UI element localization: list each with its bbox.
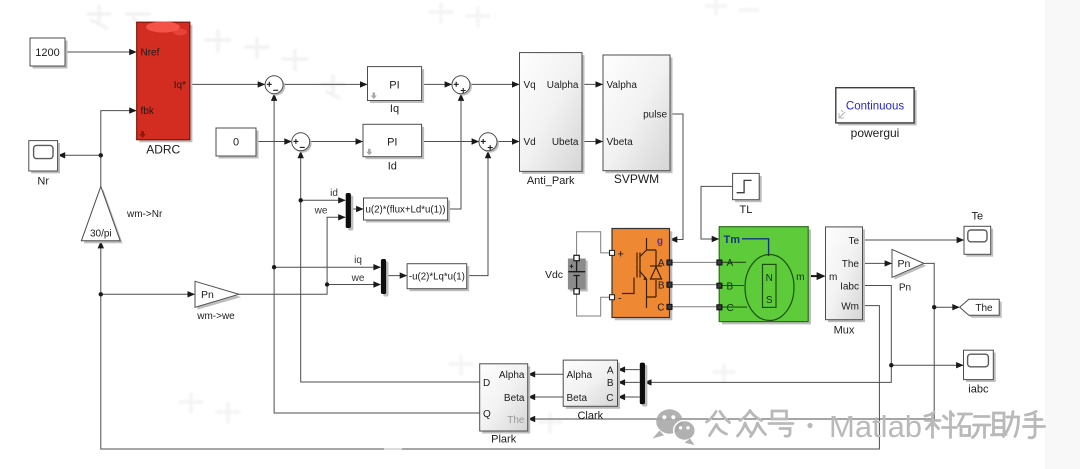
wire PI Id to sum4 (422, 138, 480, 144)
wire const0 to sum2 (256, 138, 292, 144)
svg-text:id: id (330, 188, 338, 199)
wire sum3 to Anti_Park Vq (470, 81, 520, 87)
subsystem Clark (563, 360, 620, 422)
wire gain Pn to The tag and Plark The (528, 263, 960, 422)
wire SVPWM pulse to inverter g (670, 114, 683, 243)
label iq (354, 255, 362, 266)
svg-text:Anti_Park: Anti_Park (527, 175, 575, 187)
svg-text:Id: Id (388, 161, 397, 173)
step TL (733, 173, 762, 216)
page edge band right (1045, 0, 1080, 469)
wire gain 30/pi to scope Nr and ADRC fbk (58, 107, 137, 186)
svg-text:Q: Q (483, 409, 491, 420)
svg-text:Pn: Pn (899, 283, 911, 294)
subsystem Plark (480, 364, 531, 446)
svg-text:B: B (727, 281, 734, 292)
svg-text:1200: 1200 (35, 47, 59, 59)
wire Anti_Park Ubeta to SVPWM Vbeta (582, 138, 603, 144)
wire sum1 to PI Iq (283, 81, 367, 87)
fcn2 Lq feedforward (407, 264, 469, 292)
svg-text:N: N (766, 273, 773, 284)
faint diagonal watermark top-left (88, 6, 344, 98)
wire Vdc minus to inverter (577, 290, 612, 316)
svg-text:Plark: Plark (491, 434, 517, 446)
svg-text:B: B (607, 378, 614, 389)
svg-text:Clark: Clark (577, 410, 603, 422)
svg-text:The: The (842, 259, 860, 270)
wire ADRC Iq* to sum1 (190, 81, 265, 87)
svg-text:C: C (657, 303, 664, 314)
svg-text:ADRC: ADRC (146, 143, 180, 157)
svg-text:The: The (975, 303, 993, 314)
svg-text:Mux: Mux (834, 325, 855, 337)
svg-text:PI: PI (387, 136, 397, 148)
wire fcn1 to sum3 (447, 93, 464, 209)
svg-text:30/pi: 30/pi (90, 229, 112, 240)
wire PI Iq to sum3 (422, 81, 453, 87)
watermark wechat icon (653, 409, 696, 445)
svg-text:Alpha: Alpha (499, 370, 525, 381)
label we upper (314, 206, 328, 217)
scope iabc (964, 350, 996, 395)
svg-text:PI: PI (389, 79, 399, 91)
svg-text:Nref: Nref (141, 48, 160, 59)
wire PMSM m to Mux (808, 272, 825, 280)
svg-text:iq: iq (354, 255, 362, 266)
wire mux1 to fcn1 (350, 206, 364, 212)
watermark text keyanzhushou (925, 412, 1045, 438)
svg-text:S: S (766, 295, 773, 306)
svg-text:Iq*: Iq* (174, 80, 186, 91)
wire inverter A to PMSM A (670, 261, 720, 263)
svg-text:m: m (796, 272, 804, 283)
svg-text:Pn: Pn (898, 258, 911, 270)
svg-text:-: - (618, 293, 622, 305)
svg-text:iabc: iabc (968, 384, 989, 396)
sum1 iq error (265, 76, 285, 96)
svg-text:Matlab: Matlab (829, 409, 922, 444)
sum4 Vd sum (479, 133, 499, 153)
svg-text:Wm: Wm (841, 301, 859, 312)
wire Q feedback Plark to sum1 with iq branch (271, 93, 480, 413)
svg-text:B: B (658, 280, 665, 291)
svg-text:C: C (727, 303, 734, 314)
demux iabc (640, 363, 648, 407)
svg-text:we: we (314, 206, 328, 217)
svg-text:TL: TL (739, 204, 752, 216)
gain 30/pi wm to Nr (81, 186, 163, 243)
wire Anti_Park Ualpha to SVPWM Valpha (582, 81, 603, 87)
svg-text:Ualpha: Ualpha (547, 80, 579, 91)
svg-text:Te: Te (971, 211, 983, 223)
svg-text:Nr: Nr (37, 176, 49, 188)
constant 0 (216, 128, 259, 159)
svg-text:Ubeta: Ubeta (552, 137, 579, 148)
svg-text:Valpha: Valpha (607, 80, 638, 91)
svg-text:Beta: Beta (567, 393, 588, 404)
svg-text:Tm: Tm (724, 234, 741, 246)
svg-text:0: 0 (233, 137, 239, 149)
svg-text:C: C (606, 393, 613, 404)
wire we from gain Pn to mux1 and mux2 (239, 214, 381, 294)
wire sum4 to Anti_Park Vd (497, 138, 520, 144)
wire demux to Clark A B C (618, 366, 640, 400)
sum3 Vq sum (452, 76, 472, 96)
inverter bridge (610, 229, 673, 321)
wire Clark Alpha Beta to Plark (528, 371, 564, 400)
watermark gap on bottom wire (384, 448, 402, 451)
svg-text:Beta: Beta (504, 393, 525, 404)
bus selector Mux (826, 227, 866, 337)
wire inverter C to PMSM C (670, 306, 720, 308)
svg-text:wm->we: wm->we (196, 311, 235, 322)
svg-text:g: g (657, 236, 663, 247)
label we lower (351, 273, 365, 284)
wire sum2 to PI Id (310, 138, 363, 144)
svg-text:-u(2)*Lq*u(1): -u(2)*Lq*u(1) (409, 272, 465, 283)
svg-text:Vdc: Vdc (545, 269, 563, 281)
wire mux2 to fcn2 (385, 272, 407, 278)
powergui (836, 88, 917, 140)
svg-text:Continuous: Continuous (846, 101, 904, 113)
wire Mux The to gain Pn (863, 260, 893, 266)
svg-text:Pn: Pn (201, 289, 214, 301)
watermark dot (807, 423, 812, 428)
wire Mux Iabc to demux and scope iabc (644, 286, 964, 386)
svg-text:fbk: fbk (141, 106, 155, 117)
gain Pn The (892, 249, 926, 293)
mux2 iq we (381, 259, 389, 297)
wire inverter B to PMSM B (670, 284, 720, 286)
watermark text gongzhonghao (707, 411, 794, 437)
svg-text:Te: Te (848, 236, 859, 247)
subsystem SVPWM (603, 55, 673, 186)
wire D feedback Plark to sum2 with id branch (298, 151, 480, 382)
PMSM motor (717, 227, 811, 325)
svg-text:powergui: powergui (851, 126, 900, 140)
svg-text:Iq: Iq (390, 103, 399, 115)
scope Te (964, 211, 993, 257)
sum2 id error (292, 133, 312, 153)
wire fcn2 to sum4 (466, 151, 491, 276)
svg-text:D: D (483, 378, 490, 389)
fcn1 flux feedforward (364, 198, 451, 223)
subsystem Anti_Park (520, 53, 585, 187)
faint diagonal watermark bottom-left (180, 356, 734, 432)
svg-text:The: The (507, 415, 525, 426)
svg-text:pulse: pulse (643, 110, 667, 121)
gain Pn wm to we (195, 281, 241, 322)
DC source Vdc (545, 255, 588, 294)
faint diagonal watermark top-middle (430, 0, 758, 26)
constant 1200 (30, 38, 68, 69)
svg-text:u(2)*(flux+Ld*u(1)): u(2)*(flux+Ld*u(1)) (366, 205, 446, 216)
svg-text:+: + (618, 249, 624, 261)
svg-text:Vq: Vq (524, 80, 536, 91)
PI controller Id (363, 124, 424, 172)
subsystem ADRC (137, 22, 193, 157)
goto tag The (960, 299, 1002, 318)
wire Mux Te to scope Te (863, 237, 965, 243)
svg-text:wm->Nr: wm->Nr (126, 209, 163, 220)
svg-text:Alpha: Alpha (567, 370, 593, 381)
svg-text:we: we (351, 273, 365, 284)
scope Nr (29, 141, 60, 188)
wire Mux Wm to gain 30/pi and gain Pn wm->we (98, 241, 880, 449)
svg-text:A: A (727, 258, 734, 269)
wire 1200 to ADRC Nref (65, 49, 137, 55)
wire TL to PMSM Tm (701, 186, 733, 242)
mux1 id we (346, 193, 354, 231)
svg-text:A: A (658, 258, 665, 269)
svg-text:Vbeta: Vbeta (607, 137, 634, 148)
svg-text:SVPWM: SVPWM (614, 172, 659, 186)
wire Vdc plus to inverter (577, 232, 612, 258)
svg-text:Vd: Vd (524, 137, 536, 148)
svg-text:m: m (829, 272, 837, 283)
svg-text:Iabc: Iabc (840, 281, 859, 292)
label id (330, 188, 338, 199)
svg-text:A: A (607, 365, 614, 376)
PI controller Iq (368, 67, 425, 115)
